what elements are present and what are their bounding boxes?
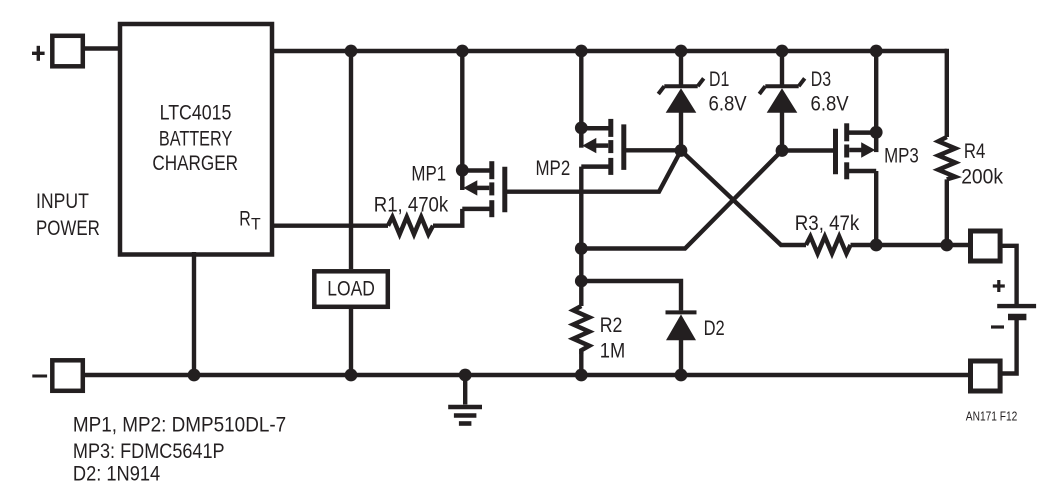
svg-text:D3: D3 [811,66,831,91]
svg-text:POWER: POWER [36,215,100,240]
wire cell to battery − terminal [1000,317,1017,374]
svg-text:200k: 200k [961,164,1003,189]
wire R3 to battery + [851,243,969,247]
wire R4 to battery line [945,179,949,245]
wire D1 anode to node A [679,111,683,151]
junction dots top rail [188,45,954,382]
wire R2 to bottom rail [579,354,583,375]
svg-text:MP3: MP3 [884,143,919,168]
label − (battery) [991,325,1004,328]
resistor R1 [388,217,433,234]
terminal battery + [971,231,1001,261]
transistor MP2 (P-MOSFET) [581,119,624,175]
wire top rail to MP1 source [460,51,464,170]
wire crossover node A to R3 [681,151,806,246]
IC U1 LTC4015 battery charger [120,24,272,255]
wire top rail to MP2 source [579,51,583,128]
svg-text:R2: R2 [600,312,623,337]
wire input+ to charger [84,46,120,50]
node A [675,144,688,157]
node R2 top [575,275,588,288]
node MP3 drain [870,239,883,252]
wire MP2 drain node to D2 [581,281,681,310]
resistor R2 [573,306,589,354]
svg-text:LOAD: LOAD [327,276,375,301]
label + (battery) [993,280,1005,292]
svg-text:6.8V: 6.8V [709,91,748,116]
svg-text:BATTERY: BATTERY [159,125,232,150]
resistor R3 [806,237,851,254]
svg-text:LTC4015: LTC4015 [160,100,232,125]
resistor R4 [938,137,955,179]
diode D2 [666,310,697,314]
svg-text:T: T [251,215,261,234]
label + (input) [32,46,45,61]
svg-text:6.8V: 6.8V [811,91,850,116]
wire D3 anode to node B [780,111,784,151]
node B [776,144,789,157]
wire node B to MP3 gate [782,148,836,152]
transistor MP3 (MOSFET, mirrored) [836,123,877,179]
wire MP3 drain down [874,171,878,245]
wire D2 anode to bottom rail [679,338,683,375]
wire MP2 gate to node A [624,148,681,152]
battery cell plate short [1008,314,1026,321]
wire charger bottom to rail [192,252,196,375]
wire R1 to MP1 drain [433,209,462,226]
svg-text:R: R [239,206,251,231]
node MP1 source [456,164,469,177]
svg-text:CHARGER: CHARGER [152,150,238,175]
svg-text:AN171 F12: AN171 F12 [966,408,1018,423]
svg-text:D2: 1N914: D2: 1N914 [73,460,160,485]
terminal input − [52,360,83,391]
svg-text:R4: R4 [964,138,985,163]
wire MP2 drain down [579,167,583,306]
wire top rail to MP3 source [874,51,878,132]
terminal battery − [971,361,1001,391]
ground [463,375,467,405]
zener D3 [759,78,804,94]
LOAD box [314,271,388,307]
zener D1 [658,78,703,94]
wire top rail corner to R4 [945,51,947,137]
svg-text:D2: D2 [704,315,725,340]
battery cell plate long [997,304,1036,308]
wire bottom rail [84,373,968,377]
wire LOAD branch from top rail [349,51,353,269]
svg-text:R1, 470k: R1, 470k [374,192,449,217]
wire battery+ to cell [1000,246,1017,306]
svg-text:1M: 1M [600,337,625,362]
wire top rail to D3 cathode [780,51,784,85]
transistor MP1 (P-MOSFET) [462,161,505,217]
wire RT pin [272,223,388,227]
svg-text:INPUT: INPUT [36,188,89,213]
wire crossover node B to MP2 drain node [581,151,782,249]
svg-text:MP1, MP2: DMP510DL-7: MP1, MP2: DMP510DL-7 [73,412,286,437]
wire top rail [272,49,947,53]
node MP2 source [575,122,588,135]
node R4 bottom [940,239,953,252]
wire MP1 gate to node A [505,151,681,192]
svg-text:MP1: MP1 [411,161,446,186]
node MP3 source [870,126,883,139]
svg-text:MP2: MP2 [536,155,571,180]
terminal input + [52,36,83,67]
wire top rail to D1 cathode [679,51,683,85]
wire LOAD to bottom rail [349,309,353,375]
svg-text:D1: D1 [709,66,729,91]
node MP2 drain cross [575,242,588,255]
label − (input) [32,375,47,378]
svg-text:R3, 47k: R3, 47k [795,210,860,235]
junction dots bottom rail [188,369,201,382]
